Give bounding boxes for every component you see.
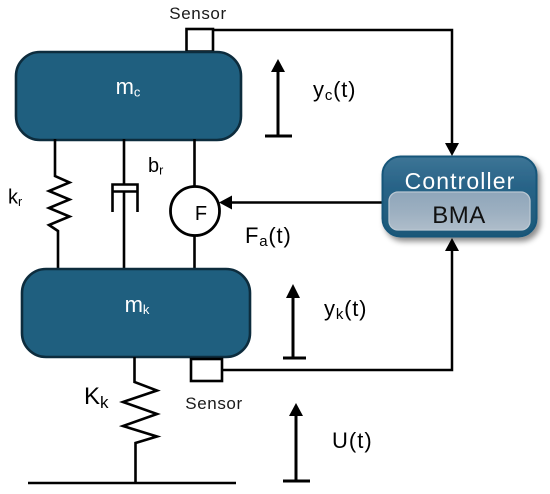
svg-text:F: F xyxy=(195,203,207,225)
svg-text:Kk: Kk xyxy=(84,383,109,412)
svg-text:br: br xyxy=(148,155,163,178)
svg-text:Sensor: Sensor xyxy=(185,394,242,413)
mass mc block xyxy=(16,52,241,140)
BMA box xyxy=(389,192,530,230)
arrowhead into controller bottom xyxy=(445,238,459,251)
yc(t) arrow xyxy=(265,59,292,136)
svg-text:U(t): U(t) xyxy=(332,428,373,453)
yk(t) arrow xyxy=(283,284,306,358)
svg-text:kr: kr xyxy=(8,187,22,210)
actuator rod bottom xyxy=(193,235,196,269)
actuator rod top xyxy=(193,139,196,187)
wire from bottom sensor to controller xyxy=(222,243,452,370)
arrowhead at actuator F xyxy=(219,196,232,210)
svg-text:BMA: BMA xyxy=(432,202,486,229)
U(t) arrow xyxy=(283,403,310,481)
svg-text:yc(t): yc(t) xyxy=(313,77,356,104)
mass mk block xyxy=(22,269,250,357)
spring Kk xyxy=(123,357,157,483)
spring kr xyxy=(49,139,70,270)
sensor (bottom) box xyxy=(191,359,222,381)
svg-text:Fa(t): Fa(t) xyxy=(245,223,292,250)
wire from top sensor to controller xyxy=(213,30,452,148)
arrowhead into controller top xyxy=(445,143,459,156)
ground line xyxy=(28,482,236,485)
sensor (top) box xyxy=(187,29,214,52)
actuator F circle xyxy=(171,187,220,236)
damper br xyxy=(113,139,138,269)
controller box xyxy=(383,157,537,237)
svg-text:yk(t): yk(t) xyxy=(324,296,367,323)
svg-text:Sensor: Sensor xyxy=(169,4,226,23)
svg-text:Controller: Controller xyxy=(405,168,516,194)
wire from controller to actuator F xyxy=(231,201,383,204)
